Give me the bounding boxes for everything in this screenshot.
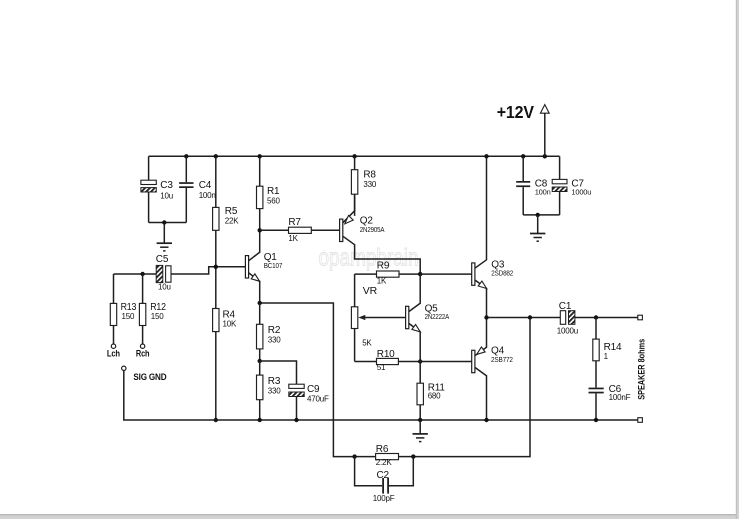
wire SIG GND down to bottom rail bbox=[124, 371, 216, 421]
capacitor C3 10u electrolytic bbox=[148, 156, 150, 180]
capacitor C7 1000u supply electrolytic bbox=[559, 156, 561, 179]
svg-text:1000u: 1000u bbox=[557, 326, 578, 335]
terminal speaker + square bbox=[638, 315, 643, 320]
svg-text:+12V: +12V bbox=[497, 102, 534, 122]
svg-text:Rch: Rch bbox=[136, 349, 150, 360]
terminal SIG GND bbox=[122, 366, 126, 370]
node R10 right junction bbox=[418, 359, 422, 363]
wire feedback from output down to R6 bbox=[413, 318, 530, 457]
svg-text:C2: C2 bbox=[377, 470, 390, 481]
node R4 bottom junction bbox=[214, 418, 218, 422]
wire Q1 emitter node to feedback branch bbox=[260, 303, 355, 457]
potentiometer VR 5K bbox=[354, 274, 356, 307]
node supply-rail junction at C8 bbox=[521, 154, 525, 158]
resistor R6 2.2K bbox=[355, 456, 376, 458]
capacitor C5 10u electrolytic input coupling bbox=[156, 265, 163, 282]
svg-text:2SD882: 2SD882 bbox=[491, 269, 513, 278]
transistor Q2 2N2905A PNP bbox=[340, 219, 343, 241]
node supply-rail junction at R5 bbox=[214, 154, 218, 158]
capacitor C8 100n supply bbox=[522, 156, 524, 181]
resistor R2 330 bbox=[259, 303, 261, 324]
resistor R11 680 bbox=[419, 362, 421, 384]
resistor R10 51 bbox=[355, 361, 377, 363]
svg-text:BC107: BC107 bbox=[264, 261, 283, 270]
svg-text:C4: C4 bbox=[199, 180, 212, 191]
node R6 left junction bbox=[352, 454, 356, 458]
wire +12V supply rail bbox=[149, 155, 560, 157]
svg-text:R2: R2 bbox=[268, 325, 281, 336]
svg-text:470uF: 470uF bbox=[307, 395, 329, 404]
svg-text:51: 51 bbox=[377, 363, 386, 372]
svg-text:SIG GND: SIG GND bbox=[133, 372, 167, 382]
node supply-rail junction at R8 bbox=[352, 154, 356, 158]
svg-text:100nF: 100nF bbox=[609, 393, 631, 402]
ground below C7/C8 bbox=[537, 215, 539, 234]
transistor Q3 2SD882 bbox=[472, 263, 475, 285]
node supply-rail junction at +12V stem bbox=[543, 154, 547, 158]
svg-text:1: 1 bbox=[604, 352, 609, 361]
svg-text:C5: C5 bbox=[156, 254, 169, 265]
node C1-R14 junction bbox=[594, 315, 598, 319]
node R9 right junction bbox=[418, 272, 422, 276]
svg-text:R7: R7 bbox=[288, 217, 301, 228]
node input junction at R12 bbox=[140, 272, 144, 276]
svg-text:R5: R5 bbox=[225, 206, 238, 217]
node supply-rail junction at C4 bbox=[184, 154, 188, 158]
node R3 bottom junction bbox=[258, 418, 262, 422]
window scrollbar right bbox=[736, 0, 739, 519]
svg-text:680: 680 bbox=[428, 392, 441, 401]
svg-text:150: 150 bbox=[151, 312, 164, 321]
svg-text:2.2K: 2.2K bbox=[376, 458, 393, 467]
node Q4 collector at bottom rail bbox=[484, 418, 488, 422]
node output feedback tap bbox=[528, 315, 532, 319]
svg-text:Lch: Lch bbox=[107, 349, 120, 360]
node C6 bottom junction bbox=[594, 418, 598, 422]
node C9 bottom junction bbox=[294, 418, 298, 422]
wire R2/R3 node to C9 bbox=[260, 361, 297, 384]
node supply-rail junction at R1 bbox=[258, 154, 262, 158]
power +12V arrow bbox=[544, 114, 546, 157]
svg-text:560: 560 bbox=[267, 196, 280, 205]
transistor Q4 2SB772 PNP bbox=[472, 350, 475, 372]
svg-text:R8: R8 bbox=[363, 170, 376, 181]
svg-text:2SB772: 2SB772 bbox=[491, 355, 513, 364]
resistor R13 150 bbox=[113, 274, 115, 303]
ground below C3/C4 bbox=[163, 223, 165, 244]
svg-text:5K: 5K bbox=[362, 339, 372, 348]
svg-text:10u: 10u bbox=[160, 191, 173, 200]
terminal Lch input bbox=[111, 344, 115, 348]
wire output node to C1 bbox=[487, 317, 561, 319]
node C7/C8 ground junction bbox=[536, 213, 540, 217]
resistor R9 1K bbox=[355, 273, 377, 275]
resistor R1 560 bbox=[259, 156, 261, 186]
node supply-rail junction at Q3 collector bbox=[484, 154, 488, 158]
svg-text:330: 330 bbox=[363, 180, 376, 189]
svg-text:330: 330 bbox=[268, 386, 281, 395]
capacitor C1 1000u output electrolytic bbox=[560, 311, 565, 325]
resistor R8 330 bbox=[354, 156, 356, 169]
window scrollbar bottom bbox=[0, 515, 739, 519]
svg-text:2N2222A: 2N2222A bbox=[425, 312, 450, 321]
capacitor C2 100pF bbox=[355, 457, 383, 486]
node C3/C4 ground junction bbox=[162, 220, 166, 224]
capacitor C6 100nF bbox=[589, 388, 604, 390]
svg-text:2N2905A: 2N2905A bbox=[360, 225, 385, 234]
svg-text:1K: 1K bbox=[377, 277, 387, 286]
terminal Rch input bbox=[140, 344, 144, 348]
svg-text:R6: R6 bbox=[376, 444, 389, 455]
svg-text:R9: R9 bbox=[377, 260, 390, 271]
node output junction Q3/Q4 bbox=[484, 315, 488, 319]
resistor R5 22K bbox=[215, 156, 217, 207]
svg-text:1K: 1K bbox=[288, 234, 298, 243]
node R11 bottom junction bbox=[418, 418, 422, 422]
svg-text:10K: 10K bbox=[223, 320, 237, 329]
svg-text:opampbrain: opampbrain bbox=[319, 245, 419, 272]
wire Q2 collector node to Q3 base bbox=[420, 273, 472, 275]
terminal speaker - square bbox=[638, 418, 643, 423]
wire R10 node to Q4 base bbox=[420, 361, 472, 363]
capacitor C9 470uF electrolytic bbox=[289, 384, 304, 388]
wire C3-C4 bottom jumper bbox=[149, 222, 187, 224]
resistor R4 10K bbox=[215, 267, 217, 309]
svg-text:10u: 10u bbox=[158, 282, 171, 291]
svg-text:C3: C3 bbox=[160, 180, 173, 191]
svg-text:150: 150 bbox=[122, 312, 135, 321]
svg-text:100n: 100n bbox=[199, 191, 216, 200]
node R1-R7-Q1 junction bbox=[258, 228, 262, 232]
svg-text:22K: 22K bbox=[225, 217, 239, 226]
svg-text:100pF: 100pF bbox=[373, 494, 395, 503]
resistor R12 150 bbox=[142, 274, 144, 303]
node Q1 emitter junction bbox=[258, 301, 262, 305]
node R6 right junction bbox=[411, 454, 415, 458]
resistor R3 330 bbox=[259, 361, 261, 375]
wire C1 to speaker terminal bbox=[575, 317, 638, 319]
node base junction with R5/R4 bbox=[214, 265, 218, 269]
svg-text:R10: R10 bbox=[377, 349, 395, 360]
node R2-R3-C9 junction bbox=[258, 359, 262, 363]
wire C8-C7 bottom jumper bbox=[523, 214, 559, 216]
capacitor C4 100n bbox=[185, 156, 187, 182]
svg-text:1000u: 1000u bbox=[571, 188, 591, 197]
wire C5 to Q1 base with jog bbox=[171, 267, 245, 274]
svg-text:SPEAKER 8ohms: SPEAKER 8ohms bbox=[636, 339, 646, 400]
wire input line from R13 to C5 bbox=[114, 273, 157, 275]
svg-text:100n: 100n bbox=[535, 188, 551, 197]
resistor R7 1K bbox=[260, 229, 289, 231]
svg-text:C1: C1 bbox=[559, 301, 572, 312]
svg-text:VR: VR bbox=[363, 285, 378, 297]
transistor Q1 BC107 bbox=[245, 256, 248, 278]
wiper arrow of VR from Q5 base bbox=[362, 317, 406, 319]
resistor R14 1 bbox=[595, 318, 597, 340]
wire bottom ground rail bbox=[216, 419, 638, 421]
svg-text:C9: C9 bbox=[307, 384, 320, 395]
ground below bottom rail bbox=[419, 420, 421, 434]
transistor Q5 2N2222A bbox=[406, 306, 409, 328]
svg-text:330: 330 bbox=[268, 336, 281, 345]
